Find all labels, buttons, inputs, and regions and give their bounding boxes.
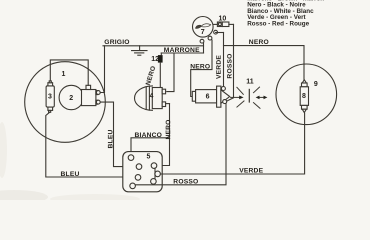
switch 5 (main switch)	[123, 152, 162, 192]
svg-text:4: 4	[149, 93, 153, 100]
connector 12	[158, 53, 163, 63]
wire coil bottom terminal to BLEU vertical	[100, 102, 136, 167]
svg-text:1: 1	[61, 71, 65, 78]
ignition coil 2	[59, 85, 96, 109]
wire NERO from switch7 middle terminal to lamp6 shell	[191, 40, 212, 97]
festoon bulb 8	[300, 80, 308, 113]
wire from switch7 right terminal	[216, 32, 224, 34]
coil terminal top	[96, 91, 100, 95]
svg-text:ROSSO: ROSSO	[173, 179, 198, 186]
wire condenser top to coil nub	[50, 60, 88, 86]
wire BIANCO	[131, 138, 170, 155]
coil terminal bottom	[96, 100, 100, 104]
wire NERO vertical to switch 5	[157, 104, 170, 166]
svg-text:VERDE: VERDE	[216, 55, 223, 79]
svg-text:9: 9	[314, 81, 318, 88]
condenser 3	[46, 81, 54, 112]
svg-text:5: 5	[147, 153, 151, 160]
flywheel magneto 1	[25, 62, 106, 143]
wire switch7 left terminal drop	[203, 43, 205, 54]
wire NERO top horizontal to lamp 9	[224, 46, 305, 80]
svg-text:NERO: NERO	[190, 63, 210, 70]
svg-text:GRIGIO: GRIGIO	[104, 39, 129, 46]
beam symbol 11	[231, 87, 268, 108]
ground	[132, 46, 147, 55]
svg-text:12: 12	[151, 56, 159, 63]
svg-text:10: 10	[219, 16, 227, 23]
colour legend	[247, 0, 324, 27]
svg-text:6: 6	[206, 93, 210, 100]
wire NERO from 12 down to lamp 4	[159, 63, 161, 88]
svg-text:7: 7	[201, 29, 205, 36]
wire ROSSO vertical from fuse to lamp6 bottom terminal	[227, 24, 234, 101]
svg-text:NERO: NERO	[165, 119, 172, 139]
wire ROSSO bottom run	[135, 104, 226, 185]
svg-text:11: 11	[246, 78, 254, 85]
wire condenser bottom to BLEU run	[46, 112, 135, 177]
wire VERDE bottom run	[160, 113, 304, 174]
wire VERDE vertical to lamp6 top terminal	[223, 33, 225, 87]
svg-text:8: 8	[302, 93, 306, 100]
svg-text:ROSSO: ROSSO	[227, 53, 234, 78]
fuse 10	[213, 22, 234, 27]
svg-text:3: 3	[48, 93, 52, 100]
wire MARRONE branch down to lamp4 top terminal	[167, 53, 174, 92]
svg-text:Rosso - Red - Rouge: Rosso - Red - Rouge	[247, 20, 309, 27]
svg-text:BLEU: BLEU	[61, 171, 80, 178]
svg-text:BIANCO: BIANCO	[135, 132, 163, 139]
lamp 4 (pilot light)	[135, 86, 166, 110]
wire GRIGIO horizontal	[103, 45, 204, 47]
wire lamp4 bottom terminal stub	[166, 103, 170, 105]
wire GRIGIO vertical to coil top terminal	[100, 46, 104, 93]
rear lamp 9	[276, 64, 337, 125]
svg-text:BLEU: BLEU	[107, 129, 114, 148]
tail lamp 6	[192, 86, 229, 107]
svg-text:MARRONE: MARRONE	[164, 47, 200, 54]
handlebar switch 7	[193, 17, 218, 44]
svg-text:VERDE: VERDE	[239, 167, 263, 174]
svg-text:2: 2	[69, 95, 73, 102]
svg-text:NERO: NERO	[249, 39, 269, 46]
wire MARRONE horizontal	[161, 52, 203, 54]
